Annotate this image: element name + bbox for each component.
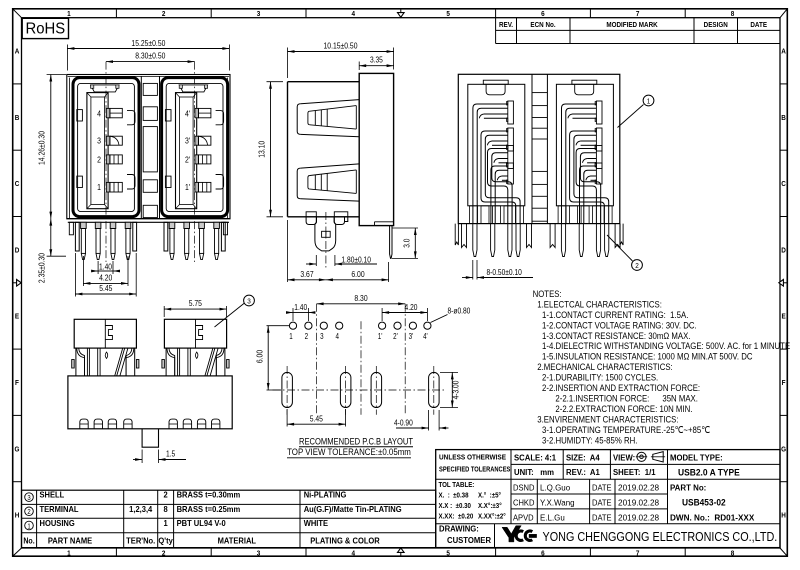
svg-text:UNIT: mm: UNIT: mm (514, 468, 554, 477)
port top notch (91, 85, 119, 92)
rear view terminal arms and wires (562, 104, 597, 224)
svg-text:1': 1' (185, 182, 191, 192)
svg-text:DWN. No.: RD01-XXX: DWN. No.: RD01-XXX (670, 512, 755, 522)
dim 3.0 side pin (392, 227, 418, 229)
port inner lining (166, 83, 223, 211)
svg-text:SHEET: 1/1: SHEET: 1/1 (613, 468, 656, 477)
dim 5.75 top view (163, 306, 165, 317)
rear view port lining (556, 84, 613, 206)
top view side tabs (162, 360, 165, 369)
svg-text:1-2.CONTACT VOLTAGE RATING: 30: 1-2.CONTACT VOLTAGE RATING: 30V. DC. (542, 320, 697, 331)
top view key notch (105, 326, 112, 340)
dim 4-3.00 pcb (440, 371, 458, 373)
signature rows (513, 483, 535, 492)
frame row ticks right (780, 83, 787, 85)
svg-text:USB2.0 A TYPE: USB2.0 A TYPE (678, 467, 740, 477)
svg-text:1.5: 1.5 (166, 449, 175, 459)
pcb slots (282, 372, 293, 407)
svg-text:3.67: 3.67 (300, 269, 313, 279)
svg-text:1-1.CONTACT CURRENT RATING: 1: 1-1.CONTACT CURRENT RATING: 1.5A. (542, 309, 688, 320)
part no cell (670, 483, 706, 492)
top view shell mid section (75, 348, 77, 376)
rear view shell legs (462, 224, 467, 248)
dim 4.20 front legs (82, 256, 84, 286)
svg-text:1.40: 1.40 (99, 262, 112, 272)
rear view contact legs (473, 224, 477, 257)
frame column labels bottom (67, 550, 71, 558)
svg-text:10.15±0.50: 10.15±0.50 (324, 41, 358, 51)
dim 5.45 front legs (74, 253, 76, 297)
svg-text:YONG CHENGGONG ELECTRONICS CO.: YONG CHENGGONG ELECTRONICS CO.,LTD. (543, 529, 778, 544)
tongue pin numbers (185, 109, 191, 119)
svg-text:3': 3' (409, 333, 414, 341)
svg-text:H: H (15, 512, 20, 520)
dim 6.00 pcb (267, 325, 290, 327)
frame row labels right (781, 48, 786, 56)
top view side tabs (72, 360, 75, 369)
svg-text:1.ELECTCAL CHARACTERISTICS:: 1.ELECTCAL CHARACTERISTICS: (537, 299, 662, 310)
tolerance table cell (439, 482, 475, 489)
svg-text:Q'ty: Q'ty (158, 536, 173, 545)
svg-text:6: 6 (541, 550, 545, 558)
frame column ticks top (115, 9, 117, 18)
frame corner diagonals (13, 9, 22, 18)
top view castellations (80, 419, 88, 429)
dim 8-0.50±0.10 rear legs (472, 260, 474, 280)
rear view terminal arms and wires (473, 104, 508, 224)
svg-text:REV.: REV. (499, 22, 513, 29)
svg-text:1: 1 (163, 519, 168, 528)
tongue contacts (106, 108, 110, 117)
svg-text:8: 8 (731, 550, 735, 558)
company logo YCG (502, 526, 521, 542)
svg-text:4.20: 4.20 (405, 302, 418, 312)
svg-text:E: E (781, 313, 786, 321)
svg-text:1: 1 (647, 98, 651, 106)
pcb port centerlines (316, 304, 318, 415)
svg-text:2': 2' (393, 333, 398, 341)
balloon label 2 (607, 235, 633, 261)
svg-text:X. : ±0.38: X. : ±0.38 (439, 492, 469, 499)
side view flange step (375, 221, 394, 223)
frame row ticks left (13, 83, 22, 85)
svg-text:B: B (15, 114, 20, 122)
svg-text:3: 3 (257, 550, 261, 558)
svg-text:PBT UL94 V-0: PBT UL94 V-0 (177, 519, 227, 528)
svg-text:SIZE: A4: SIZE: A4 (566, 453, 600, 462)
port side wall cutouts (165, 110, 171, 121)
svg-text:4: 4 (352, 11, 356, 19)
svg-text:1': 1' (378, 333, 383, 341)
pcb layout holes left group (289, 322, 296, 329)
rear view outer shell legs (455, 224, 458, 245)
svg-text:2-2.1.INSERTION FORCE: 35: 2-2.1.INSERTION FORCE: 35N MAX. (555, 393, 698, 404)
dim 5.45 pcb (286, 409, 288, 427)
svg-text:C: C (781, 181, 786, 189)
svg-text:2: 2 (163, 490, 168, 499)
svg-text:1: 1 (289, 333, 293, 341)
svg-text:1.40: 1.40 (294, 302, 307, 312)
rear view terminal posts (596, 101, 602, 124)
revision table (495, 18, 497, 44)
rear view top tab (572, 80, 597, 84)
svg-text:8.30: 8.30 (354, 293, 367, 303)
dim 3.35 side (358, 62, 360, 71)
parts table header row (23, 536, 34, 546)
parts table grid (22, 503, 436, 505)
svg-text:4: 4 (352, 550, 356, 558)
label 8-ø0.80 (431, 315, 448, 323)
svg-text:4.20: 4.20 (99, 273, 112, 283)
notes text block (533, 288, 562, 299)
frame column labels top (67, 11, 71, 19)
svg-text:3.35: 3.35 (370, 55, 383, 65)
top view port block (164, 319, 226, 348)
svg-text:7: 7 (636, 550, 640, 558)
rear view bottom stubs (470, 206, 478, 224)
side view peg centerline (325, 212, 327, 268)
front view contact legs (169, 222, 175, 228)
svg-text:H: H (781, 512, 786, 520)
frame row labels left (15, 48, 20, 56)
svg-text:2019.02.28: 2019.02.28 (618, 512, 659, 522)
svg-text:PLATING & COLOR: PLATING & COLOR (310, 536, 380, 545)
top view port block (74, 319, 136, 348)
dim 8.30 pcb (317, 303, 406, 305)
svg-text:UNLESS OTHERWISE: UNLESS OTHERWISE (439, 454, 506, 461)
svg-text:8: 8 (731, 11, 735, 19)
svg-text:5.75: 5.75 (189, 298, 202, 308)
rear view body outline (458, 74, 620, 223)
svg-text:X.X°:±3°: X.X°:±3° (478, 502, 502, 510)
svg-text:6.00: 6.00 (351, 269, 364, 279)
front view center strip (140, 76, 142, 218)
svg-text:MODIFIED MARK: MODIFIED MARK (606, 22, 657, 29)
svg-text:1: 1 (97, 182, 101, 192)
svg-text:3: 3 (320, 333, 324, 341)
svg-text:BRASS t=0.30mm: BRASS t=0.30mm (177, 490, 241, 499)
svg-text:2-2.INSERTION AND EXTRACTION F: 2-2.INSERTION AND EXTRACTION FORCE: (542, 382, 700, 393)
dim 1.40 front legs (97, 261, 99, 274)
svg-text:1-5.INSULATION RESISTANCE: 100: 1-5.INSULATION RESISTANCE: 1000 MΩ MIN.A… (542, 351, 753, 362)
svg-text:TER'No.: TER'No. (126, 536, 155, 545)
svg-text:1: 1 (67, 550, 71, 558)
frame column ticks bottom (115, 548, 117, 556)
svg-text:RECOMMENDED P.C.B LAYOUT: RECOMMENDED P.C.B LAYOUT (299, 435, 414, 446)
svg-text:2.MECHANICAL CHARACTERISTICS:: 2.MECHANICAL CHARACTERISTICS: (537, 361, 672, 372)
svg-text:3-2.HUMIDTY: 45-85% RH.: 3-2.HUMIDTY: 45-85% RH. (542, 435, 637, 446)
svg-text:15.25±0.50: 15.25±0.50 (131, 38, 165, 48)
front view shell outer outline (67, 75, 230, 219)
svg-text:4: 4 (97, 109, 101, 119)
svg-text:3: 3 (97, 136, 101, 146)
svg-text:2: 2 (162, 550, 166, 558)
svg-text:B: B (781, 114, 786, 122)
company name (543, 529, 778, 544)
dim 10.15±0.50 side (287, 48, 289, 79)
svg-text:RoHS: RoHS (25, 20, 65, 38)
svg-text:4: 4 (335, 333, 339, 341)
svg-text:VIEW:: VIEW: (613, 453, 635, 462)
svg-text:PART No:: PART No: (670, 483, 706, 492)
svg-text:A: A (15, 48, 20, 56)
title block texts row2 (514, 468, 554, 477)
svg-text:SHELL: SHELL (40, 490, 65, 499)
latch spring lower (297, 168, 301, 199)
rear view port lining (468, 84, 525, 206)
svg-text:TOL TABLE:: TOL TABLE: (439, 482, 475, 489)
svg-text:1.80±0.10: 1.80±0.10 (342, 255, 371, 265)
svg-text:F: F (782, 380, 786, 388)
svg-text:D: D (15, 247, 20, 255)
balloon label 1 (618, 105, 644, 128)
top view key notch (196, 326, 203, 340)
svg-text:8-0.50±0.10: 8-0.50±0.10 (487, 267, 522, 277)
svg-text:APVD: APVD (513, 513, 534, 522)
svg-text:1-3.CONTACT RESISTANCE: 30mΩ M: 1-3.CONTACT RESISTANCE: 30mΩ MAX. (542, 330, 690, 341)
svg-text:8-ø0.80: 8-ø0.80 (448, 306, 471, 316)
svg-text:USB453-02: USB453-02 (682, 497, 726, 507)
dim 2.35±0.30 (47, 255, 66, 257)
port inner lining (78, 83, 135, 211)
svg-text:4': 4' (423, 333, 428, 341)
port centerline (194, 62, 196, 262)
svg-text:MATERIAL: MATERIAL (218, 536, 257, 545)
RoHS label box (22, 18, 68, 38)
rear view top tab (483, 80, 508, 84)
svg-text:DSND: DSND (513, 483, 535, 492)
dim 15.25±0.50 (66, 45, 68, 71)
rear view shell legs (550, 224, 555, 248)
front view contact legs (81, 222, 87, 228)
svg-text:5.45: 5.45 (310, 414, 323, 424)
svg-text:C: C (15, 181, 20, 189)
svg-text:A: A (781, 48, 786, 56)
dim 14.26±0.30 (47, 74, 66, 76)
rear view contact legs (561, 224, 565, 257)
svg-text:Au(G.F)/Matte Tin-PLATING: Au(G.F)/Matte Tin-PLATING (304, 505, 402, 514)
svg-text:4': 4' (185, 109, 191, 119)
svg-text:2019.02.28: 2019.02.28 (618, 483, 659, 493)
pcb slot row centerline (273, 389, 446, 391)
title block texts row1 (514, 453, 557, 462)
front view shell legs (164, 222, 168, 251)
front view base side tabs (69, 222, 73, 235)
port side wall cutouts (77, 110, 83, 121)
dim 4-0.90 pcb (428, 410, 430, 431)
rear view terminal lower rails (484, 113, 508, 115)
svg-text:5: 5 (446, 550, 450, 558)
svg-text:1: 1 (67, 11, 71, 19)
svg-text:CUSTOMER: CUSTOMER (447, 536, 491, 545)
svg-text:6.00: 6.00 (255, 350, 265, 363)
svg-text:SCALE: 4:1: SCALE: 4:1 (514, 453, 557, 462)
svg-text:4-0.90: 4-0.90 (394, 418, 413, 428)
svg-text:2: 2 (305, 333, 309, 341)
svg-text:DATE: DATE (592, 513, 612, 522)
svg-text:X.XX: ±0.20: X.XX: ±0.20 (439, 513, 474, 520)
side view mounting flange (359, 73, 393, 225)
svg-text:13.10: 13.10 (257, 141, 267, 158)
side view body bottom tabs (306, 212, 316, 217)
front view shell legs (75, 222, 79, 251)
front view port opening at x=106.0 (73, 78, 139, 217)
svg-text:HOUSING: HOUSING (40, 519, 75, 528)
svg-text:F: F (15, 380, 19, 388)
rear view center strip (531, 74, 533, 223)
svg-text:3.0: 3.0 (402, 239, 412, 248)
unless otherwise cell (439, 454, 506, 461)
svg-text:3: 3 (27, 495, 31, 503)
svg-text:TERMINAL: TERMINAL (40, 505, 79, 514)
port top notch (179, 85, 207, 92)
dim 1.80±0.10 side (315, 255, 317, 266)
usb tongue (87, 93, 108, 209)
svg-text:8: 8 (163, 505, 168, 514)
svg-text:X.X : ±0.30: X.X : ±0.30 (439, 503, 472, 510)
drawing customer cell (439, 524, 479, 533)
svg-text:X.° :±5°: X.° :±5° (478, 491, 501, 499)
dim 8.30±0.50 (106, 61, 195, 63)
svg-text:G: G (781, 446, 786, 454)
svg-text:Ni-PLATING: Ni-PLATING (304, 490, 347, 499)
dim 3.67 and 6.00 side (287, 220, 289, 282)
svg-text:DATE: DATE (750, 22, 767, 29)
frame center arrows (400, 9, 402, 13)
svg-text:6: 6 (541, 11, 545, 19)
svg-text:2: 2 (635, 263, 639, 271)
svg-text:2: 2 (27, 509, 31, 517)
usb tongue (176, 93, 197, 209)
side view flange pin (390, 226, 392, 259)
top view center tab (142, 429, 158, 447)
svg-text:DATE: DATE (592, 498, 612, 507)
svg-text:2': 2' (185, 155, 191, 165)
latch spring upper (297, 104, 301, 135)
side view body (287, 82, 289, 217)
svg-text:X.XX°:±2°: X.XX°:±2° (478, 512, 506, 520)
svg-text:Y.X.Wang: Y.X.Wang (540, 498, 575, 507)
svg-text:L.Q.Guo: L.Q.Guo (540, 483, 571, 492)
rear view terminal posts (508, 101, 514, 124)
svg-text:8.30±0.50: 8.30±0.50 (135, 51, 165, 61)
svg-text:SPECIFIED TOLERANCES: SPECIFIED TOLERANCES (439, 466, 511, 474)
svg-text:TOP VIEW TOLERANCE:±0.05mm: TOP VIEW TOLERANCE:±0.05mm (287, 447, 411, 458)
balloon label 3 (215, 303, 245, 327)
title block outline (436, 450, 780, 548)
svg-text:PART NAME: PART NAME (48, 536, 93, 545)
dim 4.20 pcb (381, 308, 383, 321)
svg-text:5.45: 5.45 (99, 283, 112, 293)
svg-text:NOTES:: NOTES: (533, 288, 562, 299)
svg-text:D: D (781, 247, 786, 255)
svg-text:2-1.DURABILITY: 1500 CYCLES.: 2-1.DURABILITY: 1500 CYCLES. (542, 372, 658, 383)
svg-text:1-4.DIELECTRIC WITHSTANDING VO: 1-4.DIELECTRIC WITHSTANDING VOLTAGE: 500… (542, 341, 790, 352)
svg-text:CHKD: CHKD (513, 498, 535, 507)
svg-text:2019.02.28: 2019.02.28 (618, 497, 659, 507)
pcb layout titles (299, 435, 414, 446)
svg-text:7: 7 (636, 11, 640, 19)
svg-text:DATE: DATE (592, 483, 612, 492)
tongue pin numbers (97, 109, 101, 119)
svg-text:2: 2 (162, 11, 166, 19)
side view bottom feet (306, 217, 316, 225)
rear view bottom stubs (558, 206, 566, 224)
svg-text:4-3.00: 4-3.00 (451, 381, 461, 400)
svg-text:3.ENVIRENMENT CHARACTERISTICS:: 3.ENVIRENMENT CHARACTERISTICS: (537, 414, 678, 425)
svg-text:3: 3 (257, 11, 261, 19)
svg-text:3: 3 (247, 298, 251, 306)
parts table rows (25, 493, 34, 502)
svg-text:E.L.Gu: E.L.Gu (540, 513, 565, 522)
svg-text:BRASS t=0.25mm: BRASS t=0.25mm (177, 505, 241, 514)
top view base (68, 376, 232, 429)
svg-text:No.: No. (23, 536, 34, 546)
dim 1.40 pcb (292, 308, 294, 321)
svg-text:2-2.2.EXTRACTION FORCE: 10N MI: 2-2.2.EXTRACTION FORCE: 10N MIN. (555, 403, 692, 414)
third angle projection symbol (637, 452, 646, 461)
svg-text:G: G (15, 446, 20, 454)
svg-text:1,2,3,4: 1,2,3,4 (129, 505, 153, 514)
port centerline (105, 62, 107, 262)
svg-text:DESIGN: DESIGN (704, 22, 728, 29)
pcb layout holes right group (379, 322, 386, 329)
side view center peg (315, 217, 336, 251)
svg-text:2: 2 (97, 155, 101, 165)
dim 1.5 top view (141, 450, 143, 464)
front view port opening at x=194.6 (162, 78, 228, 217)
svg-text:ECN No.: ECN No. (530, 22, 555, 29)
svg-text:14.26±0.30: 14.26±0.30 (37, 131, 47, 165)
svg-text:E: E (15, 313, 20, 321)
svg-text:5: 5 (446, 11, 450, 19)
svg-text:3-1.OPERATING TEMPERATURE.-25℃: 3-1.OPERATING TEMPERATURE.-25℃~+85℃ (542, 424, 710, 435)
front view base strip (67, 218, 230, 220)
top view shell mid section (165, 348, 167, 376)
svg-text:2.35±0.30: 2.35±0.30 (37, 253, 47, 283)
rear view terminal lower rails (573, 113, 597, 115)
svg-text:1: 1 (27, 523, 31, 531)
parts table outline (22, 490, 436, 547)
svg-text:DRAWING:: DRAWING: (439, 524, 479, 533)
svg-text:WHITE: WHITE (304, 519, 329, 528)
dim 13.10 side (267, 81, 284, 83)
title block grid (510, 450, 512, 524)
tongue contacts (195, 108, 199, 117)
svg-text:REV.: A1: REV.: A1 (566, 468, 600, 477)
svg-text:MODEL TYPE:: MODEL TYPE: (670, 453, 723, 462)
svg-text:3': 3' (185, 136, 191, 146)
